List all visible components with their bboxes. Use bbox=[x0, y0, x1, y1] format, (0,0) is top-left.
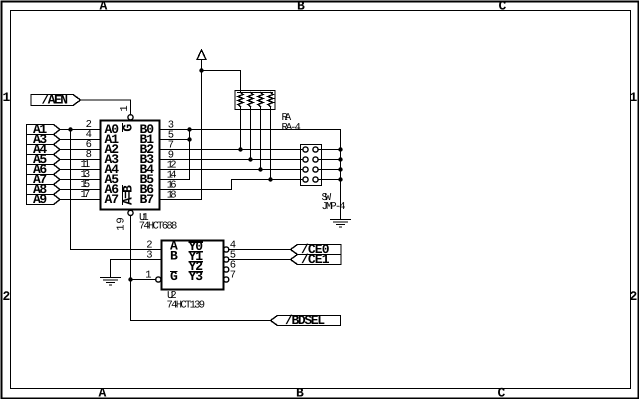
wire A1 tap down to U2 input A bbox=[71, 130, 162, 250]
svg-text:Y3: Y3 bbox=[189, 269, 204, 284]
jumper pin circle row2 right bbox=[313, 157, 318, 162]
wire A8 to U1 pin 15 bbox=[60, 189, 101, 191]
resistor RA element 2 zigzag bbox=[248, 93, 253, 107]
junction dot jumper row2 bbox=[338, 157, 342, 161]
resistor RA element 3 zigzag bbox=[258, 93, 263, 107]
U2 Y0 bubble pin 4 bbox=[224, 247, 229, 252]
svg-text:3: 3 bbox=[146, 250, 152, 262]
wire U2 Y0 to /CE0 bbox=[229, 249, 291, 251]
U1 G overline bar (rotated) bbox=[122, 124, 124, 132]
wire VCC down to U1 pin 18 row bbox=[201, 71, 203, 200]
jumper pin circle row4 left bbox=[303, 177, 308, 182]
wire jumper ground drop bbox=[340, 130, 342, 220]
U2 G bubble pin 1 bbox=[156, 277, 161, 282]
wire U1 pin 16 B6 step to jumper row 4 bbox=[160, 180, 303, 190]
wire VCC to resistor array common bbox=[202, 71, 241, 93]
svg-text:A: A bbox=[99, 386, 107, 400]
jumper pin circle row1 right bbox=[313, 147, 318, 152]
wire A5 to U1 pin 8 bbox=[60, 159, 101, 161]
svg-text:B7: B7 bbox=[140, 192, 155, 207]
svg-text:C: C bbox=[499, 0, 507, 14]
U1 A=B overline bar (rotated) bbox=[122, 186, 124, 205]
wire RA leg 2 to B3 row bbox=[250, 107, 252, 160]
svg-text:/BDSEL: /BDSEL bbox=[285, 313, 325, 328]
wire A7 to U1 pin 13 bbox=[60, 179, 101, 181]
wire A6 to U1 pin 11 bbox=[60, 169, 101, 171]
signal flag A5 bbox=[27, 155, 61, 165]
svg-text:/CE1: /CE1 bbox=[301, 252, 330, 267]
svg-text:74HCT139: 74HCT139 bbox=[167, 300, 206, 312]
wire VCC stub down bbox=[201, 60, 203, 71]
ground symbol right bbox=[331, 220, 351, 228]
wire U1 pin19 down to U2 G and BDSEL bbox=[130, 216, 132, 321]
U1 pin 1 bubble bbox=[128, 115, 133, 120]
wire RA leg 4 to B6 row bbox=[270, 107, 272, 180]
svg-text:A9: A9 bbox=[33, 192, 47, 207]
U2 Y1 bubble pin 5 bbox=[224, 257, 229, 262]
signal flag /BDSEL bbox=[271, 316, 341, 326]
junction dot jumper row1 bbox=[338, 147, 342, 151]
wire B0-B1-B5 tie vertical bbox=[189, 130, 191, 180]
junction dot B0 tie bbox=[187, 127, 191, 131]
resistor RA element 1 zigzag bbox=[238, 93, 243, 107]
svg-text:A=B: A=B bbox=[121, 185, 136, 205]
svg-text:RA-4: RA-4 bbox=[282, 122, 301, 134]
svg-text:B: B bbox=[170, 249, 178, 264]
U1 pin 19 bubble bbox=[128, 210, 133, 215]
junction dot VCC node bbox=[199, 68, 203, 72]
op-amp U1 comparator 74HCT688 box bbox=[101, 121, 160, 210]
junction dot A1 tap bbox=[68, 127, 72, 131]
wire /AEN to pin1 horizontal bbox=[81, 100, 131, 115]
resistor array RA box bbox=[235, 91, 275, 110]
switch SW jumper block JMP-4 box bbox=[301, 145, 322, 186]
svg-text:G: G bbox=[121, 124, 136, 132]
junction dot pin19 G BDSEL bbox=[128, 277, 132, 281]
U2 G overline bar bbox=[171, 271, 178, 273]
wire to U2 G pin 1 bbox=[131, 279, 156, 281]
svg-text:A7: A7 bbox=[105, 192, 120, 207]
signal flag A9 bbox=[27, 195, 61, 205]
U2 Y3 bubble pin 7 bbox=[224, 277, 229, 282]
signal flag A6 bbox=[27, 165, 61, 175]
resistor array common bar bbox=[238, 92, 273, 94]
jumper pin circle row3 left bbox=[303, 167, 308, 172]
jumper pin circle row1 left bbox=[303, 147, 308, 152]
svg-text:1: 1 bbox=[3, 90, 11, 105]
wire jumper row1 right to ground vertical bbox=[318, 149, 340, 151]
decoder U2 74HCT139 box bbox=[162, 241, 224, 290]
U2 Y1 overline bar bbox=[189, 251, 203, 253]
svg-text:19: 19 bbox=[116, 217, 128, 231]
wire U1 pin 14 B5 stub bbox=[160, 179, 190, 181]
signal flag A3 bbox=[27, 135, 61, 145]
U2 Y2 overline bar bbox=[189, 261, 203, 263]
jumper pin circle row2 left bbox=[303, 157, 308, 162]
svg-text:1: 1 bbox=[145, 270, 151, 282]
signal flag A7 bbox=[27, 175, 61, 185]
wire A4 to U1 pin 6 bbox=[60, 149, 101, 151]
wire U1 pin 3 B0 to jumper ground vertical bbox=[160, 129, 341, 131]
svg-text:1: 1 bbox=[630, 90, 638, 105]
U2 Y3 overline bar bbox=[189, 271, 203, 273]
junction dot RA leg2 B3 bbox=[248, 157, 252, 161]
svg-text:2: 2 bbox=[3, 289, 11, 304]
svg-text:B: B bbox=[296, 386, 304, 400]
wire A3 to U1 pin 4 bbox=[60, 139, 101, 141]
wire U1 pin 7 B2 to jumper row 1 bbox=[160, 149, 303, 151]
wire A1 to U1 pin 2 bbox=[60, 129, 101, 131]
svg-text:2: 2 bbox=[630, 289, 638, 304]
signal flag A4 bbox=[27, 145, 61, 155]
wire jumper row4 right to ground vertical bbox=[318, 179, 340, 181]
wire BDSEL horizontal bbox=[131, 320, 271, 322]
svg-text:JMP-4: JMP-4 bbox=[322, 201, 346, 213]
ground symbol left bbox=[101, 278, 121, 286]
junction dot jumper row4 bbox=[338, 177, 342, 181]
wire jumper row2 right to ground vertical bbox=[318, 159, 340, 161]
signal flag /CE0 bbox=[291, 245, 342, 255]
jumper pin circle row4 right bbox=[313, 177, 318, 182]
junction dot RA leg3 B4 bbox=[258, 167, 262, 171]
wire U1 pin 12 B4 to jumper row 3 bbox=[160, 169, 303, 171]
junction dot B1 tie bbox=[187, 137, 191, 141]
svg-text:1: 1 bbox=[119, 105, 131, 111]
signal flag A8 bbox=[27, 185, 61, 195]
jumper pin circle row3 right bbox=[313, 167, 318, 172]
wire A9 to U1 pin 17 bbox=[60, 199, 101, 201]
svg-text:A: A bbox=[100, 0, 108, 14]
wire RA leg 1 to B2 row bbox=[240, 107, 242, 150]
U2 Y0 overline bar bbox=[189, 241, 203, 243]
svg-text:7: 7 bbox=[230, 270, 236, 282]
resistor RA element 4 zigzag bbox=[268, 93, 273, 107]
junction dot RA leg4 B6 bbox=[268, 177, 272, 181]
svg-text:/AEN: /AEN bbox=[42, 93, 69, 108]
wire U1 pin 9 B3 to jumper row 2 bbox=[160, 159, 303, 161]
signal flag A1 bbox=[27, 125, 61, 135]
junction dot RA leg1 B2 bbox=[238, 147, 242, 151]
junction dot jumper row3 bbox=[338, 167, 342, 171]
wire U2 Y1 to /CE1 bbox=[229, 259, 291, 261]
U2 Y2 bubble pin 6 bbox=[224, 267, 229, 272]
wire jumper row3 right to ground vertical bbox=[318, 169, 340, 171]
wire U2 pin 3 B to ground bbox=[111, 260, 162, 278]
svg-text:B: B bbox=[297, 0, 305, 14]
power symbol VCC triangle bbox=[197, 50, 206, 60]
wire U1 pin 5 B1 stub bbox=[160, 139, 190, 141]
svg-text:G: G bbox=[170, 269, 178, 284]
wire RA leg 3 to B4 row bbox=[260, 107, 262, 170]
wire U1 pin 18 to VCC vertical bbox=[160, 199, 202, 201]
signal flag /AEN bbox=[31, 95, 81, 106]
signal flag /CE1 bbox=[291, 255, 342, 265]
svg-text:C: C bbox=[498, 386, 506, 400]
svg-text:74HCT688: 74HCT688 bbox=[139, 221, 178, 233]
